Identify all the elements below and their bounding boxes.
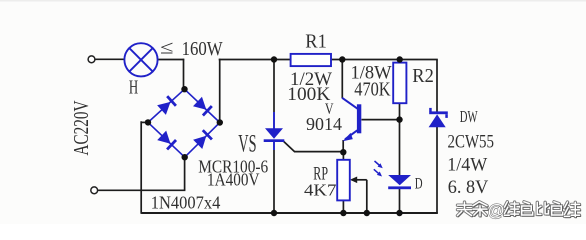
svg-text:DW: DW [460,109,479,127]
svg-text:1N4007x4: 1N4007x4 [151,192,221,212]
svg-text:≤: ≤ [160,38,174,59]
svg-text:H: H [129,76,138,98]
svg-text:R2: R2 [412,65,434,87]
svg-text:160W: 160W [182,39,224,60]
svg-text:AC220V: AC220V [69,101,93,156]
svg-text:VS: VS [238,131,256,158]
svg-text:9014: 9014 [306,114,342,134]
svg-text:1A400V: 1A400V [207,170,260,190]
svg-text:470K: 470K [354,80,390,101]
svg-text:@: @ [488,201,505,220]
svg-text:1/4W: 1/4W [447,154,487,175]
svg-text:4K7: 4K7 [304,180,337,199]
svg-text:D: D [415,175,423,192]
svg-text:2CW55: 2CW55 [448,131,495,152]
svg-text:6. 8V: 6. 8V [448,177,489,198]
svg-text:R1: R1 [305,31,327,52]
svg-text:100K: 100K [287,84,330,105]
